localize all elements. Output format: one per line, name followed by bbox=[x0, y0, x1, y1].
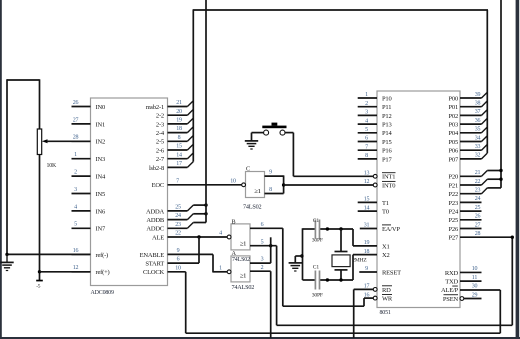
svg-text:9: 9 bbox=[177, 248, 180, 254]
svg-text:21: 21 bbox=[176, 100, 182, 106]
svg-text:7: 7 bbox=[365, 144, 368, 150]
svg-text:18: 18 bbox=[176, 126, 182, 132]
svg-text:P06: P06 bbox=[448, 148, 458, 155]
junction addr bus ADDB bbox=[204, 212, 207, 215]
svg-text:24: 24 bbox=[175, 213, 181, 219]
8051 pin 31 EA/VP bbox=[360, 223, 401, 233]
8051 pin 7 P16 bbox=[358, 144, 393, 154]
gate U3C output bubble bbox=[242, 183, 246, 187]
svg-text:IN2: IN2 bbox=[96, 139, 106, 146]
gate U3C input 8 bbox=[265, 193, 284, 195]
svg-text:IN6: IN6 bbox=[96, 208, 106, 215]
8051 pin 12 INT0 bbox=[364, 179, 396, 189]
junction ref(+)/pot bbox=[38, 270, 41, 273]
svg-text:P15: P15 bbox=[382, 139, 392, 146]
svg-text:CLOCK: CLOCK bbox=[143, 269, 165, 276]
8051 pin 13 INT1 bbox=[364, 171, 396, 181]
8051 pin 27 P26 bbox=[448, 222, 481, 233]
gate U3C 74LS02 body bbox=[246, 172, 265, 198]
svg-text:-5: -5 bbox=[36, 284, 41, 290]
svg-text:2-7: 2-7 bbox=[156, 156, 165, 163]
svg-text:6: 6 bbox=[365, 136, 368, 142]
svg-text:msb2-1: msb2-1 bbox=[146, 104, 164, 111]
ground symbol button bbox=[245, 140, 258, 142]
svg-text:20: 20 bbox=[176, 109, 182, 115]
junction ref(-)/ground bbox=[5, 253, 8, 256]
8051 pin 11 TXD bbox=[445, 275, 481, 286]
wire X2 step bbox=[353, 254, 377, 256]
crystal Y1 plates bbox=[335, 251, 348, 253]
svg-text:P03: P03 bbox=[448, 122, 458, 129]
ADC0809 pin 12 ref(+) bbox=[72, 265, 110, 276]
svg-text:10: 10 bbox=[175, 265, 181, 271]
8051 pin 15 T1 bbox=[358, 197, 389, 207]
svg-text:28: 28 bbox=[475, 231, 481, 237]
junction addr bus P20 bbox=[499, 169, 502, 172]
power -5 bar bbox=[36, 280, 43, 282]
ADC0809 pin 21 msb2-1 with bus entry bbox=[146, 100, 194, 111]
svg-text:34: 34 bbox=[475, 135, 481, 141]
8051 pin 10 RXD bbox=[445, 266, 482, 277]
junction crystal top bbox=[339, 227, 342, 230]
svg-text:IN5: IN5 bbox=[96, 191, 106, 198]
data bus vertical left bbox=[192, 10, 194, 162]
svg-text:B: B bbox=[232, 219, 236, 226]
ADC0809 pin 18 2-4 with bus entry bbox=[156, 126, 193, 137]
potentiometer R1 top lead bbox=[39, 79, 41, 129]
wire ref(+) net horizontal bbox=[40, 271, 91, 273]
svg-text:P21: P21 bbox=[448, 182, 458, 189]
ADC0809 pin 15 2-6 with bus entry bbox=[156, 144, 193, 155]
ADC0809 pin 14 2-7 with bus entry bbox=[156, 152, 193, 163]
svg-text:P26: P26 bbox=[448, 226, 458, 233]
svg-text:A: A bbox=[232, 250, 237, 257]
svg-text:2MHZ: 2MHZ bbox=[352, 257, 367, 263]
wire X1 step bbox=[352, 229, 354, 246]
svg-text:X2: X2 bbox=[382, 252, 390, 259]
svg-text:32: 32 bbox=[475, 153, 481, 159]
8051 pin 23 P22 with bus entry bbox=[448, 188, 501, 199]
svg-text:12: 12 bbox=[73, 265, 79, 271]
svg-text:ENABLE: ENABLE bbox=[140, 252, 165, 259]
svg-text:17: 17 bbox=[176, 161, 182, 167]
svg-text:6: 6 bbox=[261, 222, 264, 228]
8051 pin 33 P06 with bus entry bbox=[448, 144, 487, 155]
gate U3A input 3 bbox=[250, 262, 271, 264]
svg-text:IN7: IN7 bbox=[96, 226, 106, 233]
svg-text:23: 23 bbox=[475, 188, 481, 194]
8051 pin 39 P00 with bus entry bbox=[448, 92, 487, 103]
ADC0809 pin 22 ALE label bbox=[152, 231, 181, 242]
wire RD down to edge bbox=[354, 288, 374, 290]
ADC0809 pin 23 ADDC with bus entry bbox=[146, 222, 206, 233]
svg-text:IN4: IN4 bbox=[96, 174, 106, 181]
gate U3B input 5 bbox=[250, 245, 277, 247]
svg-text:2-6: 2-6 bbox=[156, 147, 165, 154]
svg-text:37: 37 bbox=[475, 109, 481, 115]
8051 pin 37 P02 with bus entry bbox=[448, 109, 487, 120]
wire gate A output bbox=[213, 271, 227, 273]
gate U3C input 9 bbox=[265, 175, 284, 177]
svg-text:7: 7 bbox=[176, 178, 179, 184]
wire gate B output to ALE bbox=[168, 236, 228, 238]
svg-text:ref(+): ref(+) bbox=[96, 269, 110, 276]
svg-text:74ALS02: 74ALS02 bbox=[232, 284, 255, 291]
8051 pin 38 P01 with bus entry bbox=[448, 101, 487, 112]
ADC0809 pin 9 ENABLE label bbox=[140, 248, 180, 259]
junction ALE/START bbox=[197, 235, 200, 238]
junction crystal bottom bbox=[339, 278, 342, 281]
svg-text:P07: P07 bbox=[448, 156, 458, 163]
ADC0809 pin 6 START label bbox=[145, 257, 179, 268]
svg-text:EA/VP: EA/VP bbox=[382, 226, 400, 233]
junction osc top rail bbox=[326, 227, 329, 230]
svg-text:P20: P20 bbox=[448, 174, 458, 181]
svg-text:P25: P25 bbox=[448, 217, 458, 224]
svg-text:ADDC: ADDC bbox=[146, 226, 164, 233]
svg-text:15: 15 bbox=[176, 144, 182, 150]
8051 pin 14 T0 bbox=[358, 205, 389, 215]
8051 pin 8 P17 bbox=[358, 153, 393, 163]
pushbutton S1 terminal left bbox=[264, 130, 269, 135]
crystal Y1 body bbox=[332, 255, 350, 267]
svg-text:RESET: RESET bbox=[382, 269, 401, 276]
crystal Y1 top lead bbox=[340, 229, 342, 251]
svg-text:8: 8 bbox=[178, 135, 181, 141]
pushbutton S1 actuator bbox=[272, 123, 278, 126]
potentiometer R1 body bbox=[37, 129, 41, 155]
svg-text:39: 39 bbox=[475, 92, 481, 98]
svg-text:8051: 8051 bbox=[380, 310, 391, 316]
ADC0809 pin 26 IN0 bbox=[72, 100, 106, 111]
svg-text:10: 10 bbox=[230, 178, 236, 184]
8051 pin 16 WR bbox=[364, 292, 393, 302]
svg-text:31: 31 bbox=[364, 223, 370, 229]
svg-text:29: 29 bbox=[472, 292, 478, 298]
wire osc top rail bbox=[303, 228, 316, 230]
8051 pin 29 PSEN bbox=[443, 292, 482, 303]
svg-text:PSEN: PSEN bbox=[443, 296, 459, 303]
svg-text:74LS02: 74LS02 bbox=[243, 204, 262, 211]
ADC0809 pin 28 IN2 bbox=[72, 135, 106, 146]
8051 pin 4 P13 bbox=[358, 118, 392, 128]
svg-text:19: 19 bbox=[176, 118, 182, 124]
capacitor C2 plates bbox=[314, 271, 316, 290]
junction gate B input5 / gate A input3 tie bbox=[269, 244, 272, 247]
svg-text:P13: P13 bbox=[382, 122, 392, 129]
data bus vertical right bbox=[486, 10, 488, 153]
junction osc bottom rail bbox=[326, 278, 329, 281]
ground symbol left bbox=[6, 254, 8, 262]
svg-text:IN3: IN3 bbox=[96, 156, 106, 163]
8051 pin 18 X2 label bbox=[364, 249, 390, 259]
svg-text:2-4: 2-4 bbox=[156, 130, 165, 137]
svg-text:3: 3 bbox=[365, 110, 368, 116]
svg-text:3: 3 bbox=[261, 257, 264, 263]
wire button left to ground bbox=[252, 132, 264, 134]
junction addr bus ADDA bbox=[204, 203, 207, 206]
svg-text:P17: P17 bbox=[382, 156, 392, 163]
svg-text:5: 5 bbox=[365, 127, 368, 133]
junction osc ground tap bbox=[300, 254, 303, 257]
gate U3A input 2 bbox=[250, 270, 271, 272]
wire osc left vertical bbox=[302, 228, 304, 280]
svg-text:74LS02: 74LS02 bbox=[232, 257, 250, 263]
8051 pin 35 P04 with bus entry bbox=[448, 127, 487, 138]
svg-text:P00: P00 bbox=[448, 95, 458, 102]
8051 pin 28 P27 label bbox=[448, 231, 480, 242]
wire START to junction bbox=[168, 262, 200, 264]
wire osc ground tap bbox=[295, 255, 302, 257]
svg-text:23: 23 bbox=[175, 222, 181, 228]
svg-text:25: 25 bbox=[175, 205, 181, 211]
wire ref(-) net horizontal bbox=[6, 253, 90, 255]
ADC0809 pin 25 ADDA with bus entry bbox=[146, 205, 206, 216]
svg-text:2-5: 2-5 bbox=[156, 139, 164, 146]
wire input5 dot down to gate A input 3 bbox=[270, 246, 272, 263]
IC U1 ADC0809 body bbox=[91, 98, 168, 286]
wire osc bottom rail bbox=[303, 279, 316, 281]
svg-text:INT1: INT1 bbox=[382, 174, 395, 181]
svg-text:2: 2 bbox=[74, 170, 77, 176]
8051 pin 2 P11 bbox=[358, 101, 392, 111]
svg-text:26: 26 bbox=[475, 214, 481, 220]
svg-text:≥1: ≥1 bbox=[240, 272, 247, 279]
svg-text:EOC: EOC bbox=[152, 182, 164, 189]
gate U3B input 6 bbox=[250, 227, 283, 229]
svg-text:1: 1 bbox=[74, 152, 77, 158]
svg-text:4: 4 bbox=[365, 118, 368, 124]
8051 pin 17 RD bbox=[364, 284, 392, 294]
wire button right down to INT1 bbox=[285, 132, 293, 134]
svg-text:2-2: 2-2 bbox=[156, 113, 164, 120]
svg-text:22: 22 bbox=[175, 231, 181, 237]
svg-text:ADDA: ADDA bbox=[146, 208, 164, 215]
svg-text:START: START bbox=[145, 261, 164, 268]
screen bottom border bbox=[0, 337, 520, 339]
svg-text:≥1: ≥1 bbox=[240, 240, 247, 247]
svg-text:X1: X1 bbox=[382, 243, 390, 250]
svg-text:P27: P27 bbox=[448, 235, 458, 242]
wire stub above input5 dot bbox=[270, 237, 272, 245]
8051 pin 19 X1 label bbox=[364, 240, 390, 250]
svg-text:ADDB: ADDB bbox=[146, 217, 164, 224]
svg-text:21: 21 bbox=[475, 170, 481, 176]
screen left border bbox=[0, 0, 2, 339]
crystal Y1 bottom lead bbox=[340, 270, 342, 280]
screen right border bbox=[516, 0, 520, 339]
svg-text:RD: RD bbox=[382, 287, 391, 294]
svg-text:C1: C1 bbox=[313, 218, 320, 224]
ADC0809 pin 27 IN1 bbox=[72, 117, 106, 128]
svg-text:11: 11 bbox=[472, 275, 478, 281]
svg-text:P23: P23 bbox=[448, 200, 458, 207]
svg-text:16: 16 bbox=[73, 248, 79, 254]
svg-text:P10: P10 bbox=[382, 95, 392, 102]
8051 pin 3 P12 bbox=[358, 110, 392, 120]
svg-text:2-3: 2-3 bbox=[156, 121, 164, 128]
svg-text:36: 36 bbox=[475, 118, 481, 124]
svg-text:30PF: 30PF bbox=[312, 238, 323, 244]
ADC0809 pin 3 IN5 bbox=[72, 187, 106, 198]
svg-text:24: 24 bbox=[475, 196, 481, 202]
svg-text:25: 25 bbox=[475, 205, 481, 211]
svg-text:2: 2 bbox=[261, 265, 264, 271]
8051 pin 30 ALE/P label bbox=[441, 284, 478, 295]
svg-text:30PF: 30PF bbox=[312, 292, 323, 298]
potentiometer R1 wiper arrow bbox=[42, 139, 48, 143]
8051 pin 6 P15 bbox=[358, 136, 392, 146]
8051 pin 1 P10 bbox=[358, 92, 392, 102]
address bus vertical right bbox=[500, 0, 502, 188]
svg-text:P16: P16 bbox=[382, 148, 392, 155]
wire joining gate C inputs bbox=[283, 175, 285, 193]
ADC0809 pin 8 2-5 with bus entry bbox=[156, 135, 193, 146]
svg-text:2: 2 bbox=[365, 101, 368, 107]
svg-text:P02: P02 bbox=[448, 113, 458, 120]
8051 pin 22 P21 with bus entry bbox=[448, 179, 501, 190]
svg-text:WR: WR bbox=[382, 296, 393, 303]
junction addr bus P21 bbox=[499, 178, 502, 181]
svg-text:14: 14 bbox=[364, 205, 370, 211]
wire ALE junction down to START bbox=[198, 237, 200, 263]
IC U2 8051 body bbox=[377, 91, 460, 308]
wire pot-top to ground rail (top-left loop) bbox=[7, 79, 40, 81]
junction gate C inputs to INT0 bbox=[282, 183, 285, 186]
address bus vertical left bbox=[205, 0, 207, 223]
svg-text:22: 22 bbox=[475, 179, 481, 185]
potentiometer R1 bottom lead bbox=[39, 155, 41, 281]
svg-text:5: 5 bbox=[74, 222, 77, 228]
8051 pin 32 P07 with bus entry bbox=[448, 153, 487, 164]
svg-text:5: 5 bbox=[261, 239, 264, 245]
svg-text:1: 1 bbox=[365, 92, 368, 98]
svg-text:4: 4 bbox=[219, 231, 222, 237]
svg-text:ADC0809: ADC0809 bbox=[91, 290, 114, 296]
8051 pin 34 P05 with bus entry bbox=[448, 135, 487, 146]
svg-text:ALE/P: ALE/P bbox=[441, 287, 459, 294]
gate U3B 74LS02 body bbox=[231, 224, 250, 250]
svg-text:P01: P01 bbox=[448, 104, 458, 111]
svg-text:28: 28 bbox=[73, 135, 79, 141]
svg-text:TXD: TXD bbox=[445, 279, 458, 286]
wire EOC to gate C output bbox=[168, 184, 242, 186]
ADC0809 pin 2 IN4 bbox=[72, 170, 106, 181]
svg-text:T1: T1 bbox=[382, 200, 389, 207]
svg-text:C: C bbox=[246, 166, 250, 173]
wire P27 to gate B input 5 net bbox=[460, 236, 512, 238]
svg-text:1: 1 bbox=[219, 265, 222, 271]
capacitor C1 plates bbox=[314, 220, 316, 239]
svg-text:P24: P24 bbox=[448, 209, 458, 216]
svg-text:33: 33 bbox=[475, 144, 481, 150]
svg-text:10K: 10K bbox=[47, 163, 57, 169]
ground symbol oscillator bbox=[289, 262, 302, 264]
svg-text:P14: P14 bbox=[382, 130, 392, 137]
ADC0809 pin 7 EOC bbox=[152, 178, 180, 189]
svg-text:T0: T0 bbox=[382, 209, 389, 216]
wire ENABLE step bbox=[212, 254, 214, 272]
svg-text:P11: P11 bbox=[382, 104, 391, 111]
svg-text:9: 9 bbox=[269, 170, 272, 176]
svg-text:4: 4 bbox=[74, 204, 77, 210]
svg-text:C1: C1 bbox=[313, 264, 320, 270]
svg-text:6: 6 bbox=[177, 257, 180, 263]
ADC0809 pin 20 2-2 with bus entry bbox=[156, 109, 193, 120]
ADC0809 pin 17 lsb2-8 with bus entry bbox=[149, 161, 193, 172]
ADC0809 pin 16 ref(-) bbox=[72, 248, 109, 259]
junction P27 corner bbox=[511, 236, 514, 239]
svg-text:3: 3 bbox=[74, 187, 77, 193]
svg-text:27: 27 bbox=[73, 117, 79, 123]
svg-text:IN1: IN1 bbox=[96, 121, 106, 128]
wire gate A input 2 down to edge bbox=[270, 271, 272, 338]
ADC0809 pin 10 CLOCK label bbox=[143, 265, 181, 276]
8051 pin 24 P23 bbox=[448, 196, 481, 207]
8051 pin 25 P24 bbox=[448, 205, 481, 216]
ADC0809 pin 5 IN7 bbox=[72, 222, 106, 233]
svg-text:ALE: ALE bbox=[152, 234, 164, 241]
svg-text:15: 15 bbox=[364, 197, 370, 203]
svg-text:≥1: ≥1 bbox=[254, 188, 261, 195]
8051 pin 21 P20 with bus entry bbox=[448, 170, 501, 181]
svg-text:8: 8 bbox=[269, 187, 272, 193]
svg-text:10: 10 bbox=[472, 266, 478, 272]
svg-text:P12: P12 bbox=[382, 113, 392, 120]
svg-text:8: 8 bbox=[365, 153, 368, 159]
svg-text:P05: P05 bbox=[448, 139, 458, 146]
wire WR to gate B input 6 net bbox=[364, 297, 373, 299]
svg-text:INT0: INT0 bbox=[382, 182, 395, 189]
wire CLOCK to ALE/P net bbox=[168, 271, 186, 273]
8051 pin 9 RESET bbox=[359, 266, 401, 276]
wire gate C to INT0 bbox=[284, 184, 374, 186]
8051 pin 36 P03 with bus entry bbox=[448, 118, 487, 129]
svg-text:IN0: IN0 bbox=[96, 104, 106, 111]
svg-text:35: 35 bbox=[475, 127, 481, 133]
data bus horizontal top bbox=[193, 9, 488, 11]
ADC0809 pin 24 ADDB with bus entry bbox=[146, 213, 206, 224]
pushbutton S1 terminal right bbox=[280, 130, 285, 135]
svg-text:27: 27 bbox=[475, 222, 481, 228]
ADC0809 pin 4 IN6 bbox=[72, 204, 106, 215]
svg-text:14: 14 bbox=[176, 152, 182, 158]
svg-text:38: 38 bbox=[475, 101, 481, 107]
svg-text:lsb2-8: lsb2-8 bbox=[149, 165, 164, 172]
gate U3A 74LS02 body bbox=[231, 256, 250, 282]
svg-text:RXD: RXD bbox=[445, 270, 459, 277]
svg-text:P04: P04 bbox=[448, 130, 458, 137]
svg-text:P22: P22 bbox=[448, 191, 458, 198]
svg-text:ref(-): ref(-) bbox=[96, 252, 109, 259]
gate U3A output bubble bbox=[227, 270, 231, 274]
pushbutton S1 bar bbox=[262, 126, 286, 129]
8051 pin 26 P25 bbox=[448, 214, 481, 225]
svg-text:30: 30 bbox=[472, 284, 478, 290]
svg-text:9: 9 bbox=[365, 266, 368, 272]
ADC0809 pin 1 IN3 bbox=[72, 152, 106, 163]
8051 pin 5 P14 bbox=[358, 127, 393, 137]
ADC0809 pin 19 2-3 with bus entry bbox=[156, 118, 193, 129]
gate U3B output bubble bbox=[227, 235, 231, 239]
svg-text:26: 26 bbox=[73, 100, 79, 106]
